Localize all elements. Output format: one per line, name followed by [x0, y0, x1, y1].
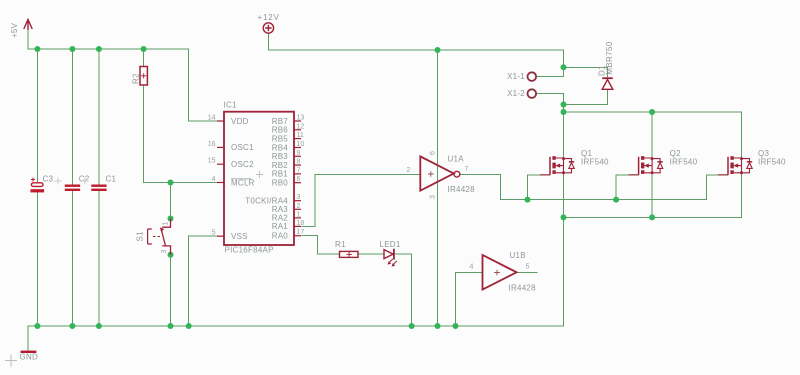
wire C2 bottom lead: [71, 191, 73, 326]
svg-text:RB1: RB1: [272, 170, 289, 179]
node rail/U1B: [453, 323, 459, 329]
svg-text:RB4: RB4: [272, 143, 289, 152]
node S1 pin3: [168, 252, 174, 258]
capacitor C1: [91, 185, 106, 192]
wire S1 bottom: [170, 255, 172, 326]
node S1 pin1: [168, 216, 174, 222]
node source Q1: [561, 214, 567, 220]
node rail/U1A: [435, 323, 441, 329]
svg-text:3: 3: [297, 194, 301, 201]
wire Q1 drain: [563, 112, 565, 158]
svg-text:RB5: RB5: [272, 134, 289, 143]
wire +5V stem: [27, 30, 29, 50]
wire +12V stem: [267, 34, 269, 51]
svg-text:7: 7: [297, 167, 301, 174]
origin cross IC1: [256, 171, 263, 178]
node X1-2/D1: [561, 102, 567, 108]
LED LED1: [384, 249, 397, 265]
node source Q2: [649, 214, 655, 220]
svg-text:MBR750: MBR750: [605, 41, 614, 75]
wire +5V rail: [28, 48, 189, 50]
svg-text:18: 18: [297, 220, 305, 227]
svg-text:C3: C3: [43, 175, 54, 184]
wire D1 cathode branch: [564, 67, 608, 78]
wire C1 top lead: [98, 49, 100, 185]
wire C3 bottom lead: [36, 192, 38, 326]
wire ground rail: [28, 325, 564, 327]
wire RA0 to R1: [302, 236, 340, 254]
svg-text:5: 5: [526, 264, 530, 271]
svg-text:+12V: +12V: [258, 13, 280, 22]
node rail/C1: [96, 323, 102, 329]
switch S1 lever arrowhead: [160, 227, 164, 232]
svg-text:S1: S1: [136, 231, 145, 242]
svg-text:R2: R2: [132, 73, 141, 84]
node +5V/C3: [34, 46, 40, 52]
node +5V/C1: [96, 46, 102, 52]
wire source line: [564, 216, 742, 218]
wire R1 to LED1: [358, 253, 384, 255]
capacitor C2: [65, 185, 80, 192]
supply +5V: [24, 20, 32, 31]
svg-text:2: 2: [297, 203, 301, 210]
MOSFET Q2 IRF540: [629, 157, 639, 175]
wire Q3 gate riser: [707, 175, 729, 200]
svg-text:C1: C1: [106, 175, 117, 184]
wire U1B output stub: [517, 271, 537, 273]
svg-text:IRF540: IRF540: [758, 158, 786, 167]
wire R2 bottom to MCLR: [144, 85, 217, 183]
wire Q2 source: [651, 173, 653, 218]
svg-text:RB7: RB7: [272, 117, 289, 126]
svg-text:C2: C2: [79, 175, 90, 184]
node rail/C3: [34, 323, 40, 329]
wire R2 top lead: [143, 49, 145, 67]
origin cross U1B: [494, 270, 500, 276]
svg-text:15: 15: [208, 158, 216, 165]
svg-text:5: 5: [212, 230, 216, 237]
node drain bus Q1: [561, 109, 567, 115]
svg-text:RB6: RB6: [272, 126, 289, 135]
svg-text:RA1: RA1: [272, 222, 289, 231]
svg-text:IRF540: IRF540: [581, 158, 609, 167]
origin cross C1: [82, 178, 89, 185]
wire drain node link: [563, 105, 565, 113]
wire Q2 drain: [651, 112, 653, 158]
wire U1B input: [456, 272, 483, 326]
wire GND stem: [27, 326, 29, 351]
wire Q1 source: [563, 173, 565, 218]
node D1 top: [561, 64, 567, 70]
svg-text:9: 9: [297, 150, 301, 157]
origin cross C2: [55, 178, 62, 185]
svg-text:4: 4: [470, 264, 474, 271]
pin name MCLR: [231, 178, 255, 187]
svg-text:RB2: RB2: [272, 161, 289, 170]
origin cross GND: [5, 355, 17, 367]
wire U1A power vertical: [437, 50, 439, 326]
wire VDD supply: [189, 49, 218, 121]
node +12V/U1A: [435, 47, 441, 53]
pin names RB7-RB0: [272, 117, 289, 188]
svg-text:RB3: RB3: [272, 152, 289, 161]
MOSFET Q3 IRF540: [718, 157, 728, 175]
svg-text:IR4428: IR4428: [509, 284, 537, 293]
wire source line to ground rail: [563, 217, 565, 326]
svg-text:IC1: IC1: [224, 101, 238, 110]
supply +12V: [263, 23, 273, 33]
wire VSS to ground rail: [189, 236, 217, 326]
op-amp U1A IR4428 driver: [420, 156, 460, 190]
node MCLR/S1: [168, 180, 174, 186]
svg-text:MCLR: MCLR: [231, 178, 255, 187]
svg-text:17: 17: [297, 229, 305, 236]
node rail/S1: [168, 323, 174, 329]
svg-text:VDD: VDD: [231, 117, 249, 126]
svg-text:U1A: U1A: [448, 155, 465, 164]
resistor R1: [340, 251, 359, 257]
svg-text:R1: R1: [335, 240, 346, 249]
IC1 left pin stubs: [217, 121, 224, 236]
wire U1A output to gate bus: [460, 174, 501, 199]
node +5V/R2: [141, 46, 147, 52]
wire Q3 drain: [741, 112, 743, 158]
connector X1-1: [528, 72, 537, 81]
switch S1: [148, 219, 171, 255]
svg-text:8: 8: [297, 159, 301, 166]
capacitor C3: [31, 178, 45, 193]
wire drain bus: [564, 111, 742, 113]
MOSFET Q1 IRF540: [540, 157, 550, 175]
svg-text:IR4428: IR4428: [448, 185, 476, 194]
wire Q2 gate riser: [616, 175, 639, 200]
wire gate bus: [501, 199, 707, 201]
svg-text:1: 1: [163, 222, 170, 226]
wire Q1 gate riser: [528, 175, 551, 200]
wire Q3 source: [741, 173, 743, 218]
diode D1 MBR760: [602, 78, 613, 89]
node +5V/C2: [69, 46, 75, 52]
wire +12V drop to X1-1: [563, 50, 565, 77]
IC1 right pin stubs: [294, 121, 301, 236]
svg-text:13: 13: [297, 115, 305, 122]
svg-text:4: 4: [212, 176, 216, 183]
wire S1 top: [170, 183, 172, 219]
ground GND: [21, 351, 37, 353]
svg-text:X1-1: X1-1: [507, 72, 525, 81]
wire C2 top lead: [71, 49, 73, 185]
resistor R2: [140, 67, 147, 86]
svg-text:OSC1: OSC1: [231, 143, 254, 152]
svg-text:RB0: RB0: [272, 179, 289, 188]
svg-text:IRF540: IRF540: [670, 158, 698, 167]
node gate bus Q2: [613, 197, 619, 203]
op-amp U1B IR4428 driver: [483, 255, 517, 290]
wire +12V rail: [268, 49, 563, 51]
wire LED1 cathode to ground rail: [395, 254, 412, 326]
wire C3 top lead: [36, 49, 38, 183]
svg-text:LED1: LED1: [380, 240, 401, 249]
svg-text:16: 16: [208, 141, 216, 148]
svg-text:VSS: VSS: [231, 232, 248, 241]
svg-text:1: 1: [297, 211, 301, 218]
IC U1 PIC16F84AP box: [224, 112, 294, 245]
wire C1 bottom lead: [98, 191, 100, 326]
svg-text:U1B: U1B: [510, 251, 526, 260]
svg-text:10: 10: [297, 141, 305, 148]
LED1 emission arrowheads: [388, 261, 396, 267]
connector X1-2: [528, 89, 537, 98]
node gate bus Q1: [525, 197, 531, 203]
node rail/C2: [69, 323, 75, 329]
svg-text:2: 2: [407, 167, 411, 174]
svg-text:11: 11: [297, 132, 304, 139]
svg-text:12: 12: [297, 123, 305, 130]
svg-text:OSC2: OSC2: [231, 160, 254, 169]
svg-text:GND: GND: [20, 353, 39, 362]
svg-text:3: 3: [161, 250, 168, 254]
node drain bus Q2: [649, 109, 655, 115]
pin names RA4-RA0: [245, 197, 288, 241]
wire X1-2 lead: [536, 94, 563, 105]
svg-text:6: 6: [429, 151, 436, 155]
svg-text:+5V: +5V: [10, 22, 19, 38]
wire RA1 to U1A input: [302, 174, 420, 226]
svg-text:PIC16F84AP: PIC16F84AP: [225, 246, 274, 255]
svg-text:6: 6: [297, 176, 301, 183]
svg-text:7: 7: [465, 166, 469, 173]
svg-text:X1-2: X1-2: [507, 89, 525, 98]
svg-text:RA0: RA0: [272, 232, 289, 241]
right pin numbers 13..17: [297, 115, 305, 237]
wire D1 anode return: [564, 89, 608, 104]
origin cross U1A: [428, 171, 434, 177]
svg-text:3: 3: [429, 195, 436, 199]
wire X1-1 lead: [536, 76, 563, 78]
node rail/LED: [409, 323, 415, 329]
svg-text:14: 14: [208, 115, 216, 122]
node rail/VSS: [186, 323, 192, 329]
